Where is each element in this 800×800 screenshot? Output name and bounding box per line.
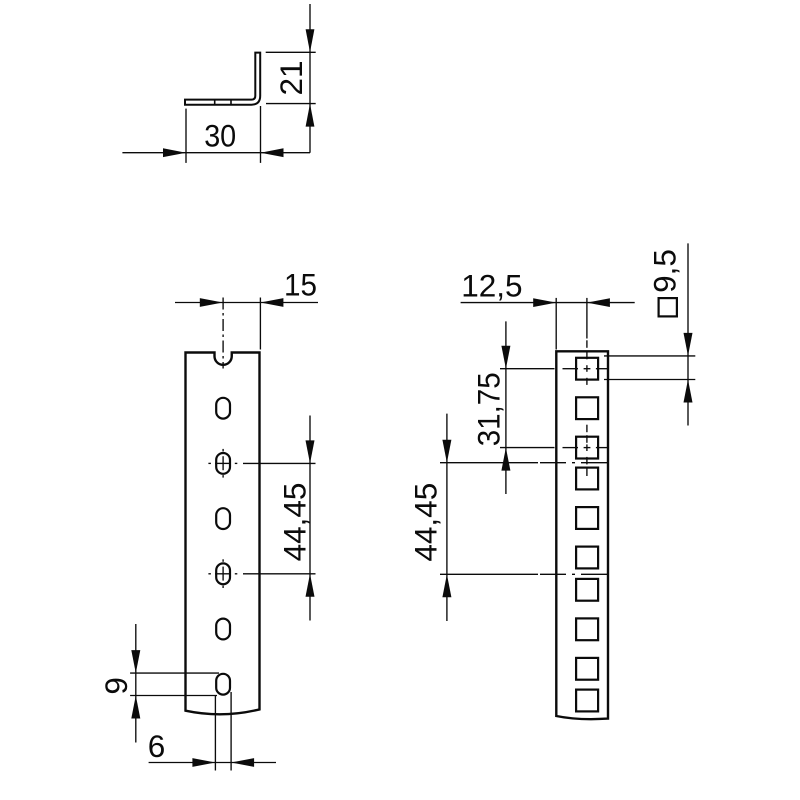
dimension 9,5: bottom arrowhead xyxy=(684,380,693,403)
svg-text:12,5: 12,5 xyxy=(461,268,522,304)
svg-text:44,45: 44,45 xyxy=(276,483,312,562)
square hole 4 xyxy=(576,468,598,490)
dimension 9: bottom arrowhead xyxy=(131,696,140,719)
dimension 31,75: bottom arrowhead xyxy=(501,448,510,471)
center mark horizontal dash-dot, hole 2 xyxy=(208,462,237,464)
dimension 15: left arrowhead xyxy=(200,298,223,307)
bend mark tick 1 on angle flange xyxy=(214,99,216,104)
center mark horizontal dash-dot, hole 4 xyxy=(208,573,237,575)
dimension 9: dimension line xyxy=(135,624,137,743)
dimension 6: dimension line xyxy=(149,762,276,764)
square hole 1 (with center marks) xyxy=(576,358,598,380)
dimension 44,45 (rack): bottom arrowhead xyxy=(442,574,451,597)
dimension 9: extension line top xyxy=(130,672,219,674)
dimension 15: extension line right xyxy=(259,298,261,350)
dimension 12,5: right arrowhead xyxy=(587,298,610,307)
dimension 21: bottom arrowhead xyxy=(306,104,315,127)
square hole 10 xyxy=(576,690,598,712)
oval hole 1 xyxy=(216,398,230,419)
dimension 30: extension line left xyxy=(185,109,187,163)
vertical centerline through square 1 xyxy=(586,340,588,385)
bend mark tick 2 on angle flange xyxy=(230,99,232,104)
dimension 12,5: left arrowhead xyxy=(533,298,556,307)
dimension 6: right arrowhead xyxy=(231,758,254,767)
angle profile cross-section xyxy=(185,53,260,105)
square hole 5 xyxy=(576,507,598,529)
oval hole 2 (with center marks) xyxy=(216,453,230,474)
dimension 6: extension line right xyxy=(230,692,232,771)
dimension 15: right arrowhead xyxy=(260,298,283,307)
dimension 44,45 (rack): top arrowhead xyxy=(442,440,451,463)
dimension 9,5: dimension line xyxy=(687,243,689,425)
dimension 30: dimension line xyxy=(122,152,310,154)
oval hole 5 xyxy=(216,619,230,640)
dimension 44,45 (rail): dimension line xyxy=(309,416,311,621)
square hole 6 xyxy=(576,547,598,569)
center mark vertical, hole 4 xyxy=(222,559,224,588)
dimension 12,5: dimension line xyxy=(461,302,635,304)
dimension 30: left arrowhead xyxy=(163,148,186,157)
square hole 3 (with center marks) xyxy=(576,437,598,459)
dimension 9: top arrowhead xyxy=(131,650,140,673)
dimension 21: top arrowhead xyxy=(306,29,315,52)
dimension 30: right arrowhead xyxy=(261,148,284,157)
dimension 44,45 (rack): dimension line xyxy=(446,414,448,621)
dimension 44,45 (rack): extension line bottom xyxy=(440,573,538,575)
square symbol of 9,5 label xyxy=(659,298,677,316)
dimension 6: left arrowhead xyxy=(192,758,215,767)
center mark vertical, hole 2 xyxy=(222,449,224,478)
oval hole 3 xyxy=(216,508,230,529)
dimension 30: extension line right xyxy=(260,106,262,163)
svg-text:44,45: 44,45 xyxy=(407,483,443,562)
dimension 12,5: extension line right (to centerline) xyxy=(586,298,588,339)
dimension 44,45 (rail): bottom arrowhead xyxy=(306,574,315,597)
dimension 12,5: extension line left xyxy=(555,298,557,350)
mounting rail (oval holes) outline xyxy=(186,353,260,715)
dimension 44,45 (rail): extension line bottom xyxy=(243,573,316,575)
dimension 21: extension line top xyxy=(266,51,316,53)
dimension 9,5: extension line bottom xyxy=(604,379,695,381)
svg-text:31,75: 31,75 xyxy=(471,372,507,446)
dimension 9,5: top arrowhead xyxy=(684,333,693,356)
square hole 8 xyxy=(576,618,598,640)
dimension 9,5: extension line top xyxy=(604,355,695,357)
dimension 44,45 (rail): top arrowhead xyxy=(306,440,315,463)
svg-text:9: 9 xyxy=(98,677,134,695)
svg-text:15: 15 xyxy=(284,266,317,302)
square hole 2 xyxy=(576,397,598,419)
centerline above notch xyxy=(222,298,224,369)
horizontal centerline through square 1 xyxy=(500,368,609,370)
square hole 7 xyxy=(576,579,598,601)
dimension 44,45 (rail): extension line top xyxy=(243,462,316,464)
svg-text:9,5: 9,5 xyxy=(647,249,683,293)
dimension 21: extension line bottom xyxy=(266,103,316,105)
svg-text:30: 30 xyxy=(204,118,236,154)
dimension 44,45 (rack): extension line top xyxy=(440,462,538,464)
horizontal centerline through square 3 xyxy=(500,447,609,449)
vertical centerline through square 3 xyxy=(586,425,588,476)
svg-text:21: 21 xyxy=(273,60,309,95)
svg-text:6: 6 xyxy=(148,728,166,764)
rack rail (square holes) outline xyxy=(556,351,608,719)
dimension 15: dimension line xyxy=(175,302,318,304)
oval hole 4 (with center marks) xyxy=(216,563,230,584)
dimension 9: extension line bottom xyxy=(130,695,217,697)
square hole 9 xyxy=(576,658,598,680)
dimension 31,75: top arrowhead xyxy=(501,346,510,369)
dimension 21: dimension line xyxy=(309,4,311,153)
dimension 31,75: dimension line xyxy=(505,321,507,494)
dimension 6: extension line left xyxy=(214,695,216,771)
oval hole 6 (bottom) xyxy=(216,674,230,695)
